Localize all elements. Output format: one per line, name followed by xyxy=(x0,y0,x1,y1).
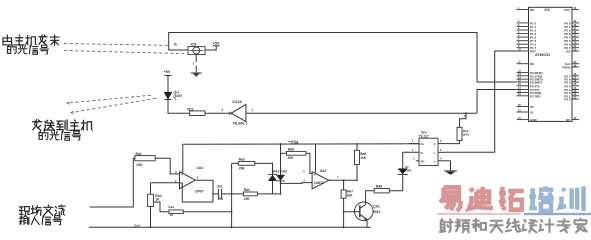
svg-text:20K: 20K xyxy=(244,197,251,201)
svg-text:QA1: QA1 xyxy=(373,205,380,209)
inverter IC10A 74LS06 (points left) with input bubble xyxy=(229,112,231,114)
wire Ra3 to clamp xyxy=(255,162,273,164)
annotation arrow dashed (from LED) 1 xyxy=(70,95,151,103)
resistor Ra4 xyxy=(243,192,257,196)
svg-text:IC8: IC8 xyxy=(191,43,197,47)
svg-text:+: + xyxy=(314,173,316,177)
svg-text:UA1: UA1 xyxy=(197,166,204,170)
LED L1 xyxy=(164,92,172,99)
ground (optocoupler emitter) xyxy=(450,161,452,171)
feedback loop UA1 xyxy=(180,180,214,202)
clamp diode DA2 (down) xyxy=(280,144,282,194)
label text "的光信号" (line 2) xyxy=(8,45,17,54)
wire receiver to +5V xyxy=(205,46,216,50)
wire R11 to inverter xyxy=(205,112,229,114)
resistor Ra9 pull-up xyxy=(356,144,358,150)
svg-text:104: 104 xyxy=(218,197,224,201)
wire Ra6 to UA2 +input xyxy=(306,153,312,173)
wire MCU RST to optocoupler pin 5 xyxy=(446,51,517,152)
wire inverter output to MCU (TXD line) xyxy=(246,112,477,114)
svg-text:+: + xyxy=(181,173,183,177)
op-amp UA1 triangle xyxy=(180,172,196,189)
optocoupler Sn1 TIL117 box xyxy=(419,138,438,165)
MCU left pin stubs and labels xyxy=(517,9,529,11)
wire AC input line 1 xyxy=(90,158,135,207)
ground (receiver) xyxy=(195,66,197,73)
MCU right pin stubs and labels xyxy=(572,9,579,11)
op-amp UA2 triangle xyxy=(312,172,329,189)
svg-text:Ca1: Ca1 xyxy=(217,185,223,189)
svg-text:+5V: +5V xyxy=(164,70,171,74)
resistor R13 xyxy=(457,127,462,140)
label text "发送到主机" (optical signal to host, line 1) xyxy=(32,120,41,131)
wire Ra1 to UA1 +input xyxy=(155,158,179,174)
svg-text:X1: X1 xyxy=(530,111,534,115)
capacitor Ca1 xyxy=(213,193,219,195)
svg-text:13: 13 xyxy=(464,114,468,118)
resistor R11 xyxy=(190,111,205,116)
svg-text:LM311: LM311 xyxy=(314,181,324,185)
wire diode to RA8 xyxy=(389,174,402,190)
collector wire to RA8 xyxy=(366,191,375,205)
wire +5V to LED xyxy=(167,76,169,93)
resistor Ra1 xyxy=(135,156,155,161)
resistor Ra6 xyxy=(281,152,287,154)
svg-text:R11: R11 xyxy=(188,107,194,111)
svg-text:UA2: UA2 xyxy=(320,169,327,173)
svg-text:20K: 20K xyxy=(288,156,295,160)
svg-text:1K: 1K xyxy=(155,198,160,202)
svg-text:AT89C51: AT89C51 xyxy=(535,53,550,57)
optical receiver IC8 box xyxy=(188,47,205,55)
watermark logo 易迪拓 (pink) xyxy=(440,187,461,211)
annotation arrow dashed (from LED) 2 xyxy=(74,98,156,112)
svg-text:10K: 10K xyxy=(347,193,354,197)
watermark underline pink xyxy=(437,213,521,215)
transistor QA1 9013 xyxy=(355,202,374,221)
svg-text:LED: LED xyxy=(176,94,183,98)
svg-text:10K: 10K xyxy=(136,163,143,167)
svg-text:RST: RST xyxy=(530,50,536,54)
svg-text:+5V: +5V xyxy=(213,42,220,46)
watermark underline blue xyxy=(524,213,591,215)
wire clamp to UA2 -input xyxy=(281,182,313,185)
svg-text:GND: GND xyxy=(530,118,538,122)
stub UA2 V+ xyxy=(315,144,317,172)
stub UA1 V+ xyxy=(182,144,184,172)
label text "现场交流" (field AC, line 1) xyxy=(19,207,29,215)
svg-text:Ra1: Ra1 xyxy=(136,152,142,156)
svg-text:NC: NC xyxy=(421,159,425,163)
svg-text:P3 7RD: P3 7RD xyxy=(530,94,541,98)
emitter wire to rail xyxy=(366,219,368,227)
wire R13 to optocoupler pin 6 xyxy=(446,141,460,144)
label text "由主机发来" (optical signal from host, line 1) xyxy=(3,35,12,45)
svg-text:Ra1: Ra1 xyxy=(169,205,175,209)
power rail +VSa xyxy=(183,143,419,146)
clamp diode DA1 (up) xyxy=(272,163,274,194)
wire Ca1 to Ra4 xyxy=(222,193,244,195)
wire Ra4 to clamp node xyxy=(257,193,280,195)
resistor Ra2 horizontal (feedback) xyxy=(153,202,169,212)
wire receiver bottom pin xyxy=(195,55,197,62)
wire LED to R11 xyxy=(168,100,190,114)
svg-text:VCC: VCC xyxy=(564,8,571,12)
wire UA1 -input xyxy=(151,182,180,184)
svg-text:P2 0: P2 0 xyxy=(564,98,571,102)
optocoupler pin stubs right xyxy=(438,143,446,145)
optocoupler pin stubs left xyxy=(410,143,420,145)
label text "输入信号" (input signal, line 2) xyxy=(19,215,29,224)
svg-text:10K: 10K xyxy=(360,156,367,160)
svg-text:Ra6: Ra6 xyxy=(288,147,294,151)
MCU IC6 AT89C51 box xyxy=(529,7,573,121)
svg-text:D-: D- xyxy=(421,151,424,155)
label text "的光信号" (line 2) xyxy=(39,131,48,140)
resistor RA7 base xyxy=(343,180,345,190)
svg-text:4148: 4148 xyxy=(405,168,412,172)
wire Ra2h to node xyxy=(183,211,231,213)
wire MCU P3.5 to TXD line xyxy=(477,90,517,114)
power +5V (receiver) xyxy=(213,45,220,47)
wire top loop from MCU P3.3 to receiver IC8 xyxy=(169,33,517,83)
svg-text:20K: 20K xyxy=(239,167,246,171)
wire MCU pin 13 jog to R13 xyxy=(460,113,467,127)
resistor Ra3 xyxy=(232,162,239,164)
watermark text 射频和天线设计专家 (gray) xyxy=(440,219,453,232)
svg-text:+VSa: +VSa xyxy=(288,139,299,144)
svg-text:OP07: OP07 xyxy=(195,190,204,194)
annotation arrow dashed (to receiver) 2 xyxy=(64,51,184,54)
svg-text:IC10A: IC10A xyxy=(233,100,243,104)
resistor RA8 xyxy=(374,189,389,193)
svg-text:9013: 9013 xyxy=(373,210,381,214)
wire AC input line 2 / common rail xyxy=(89,226,371,228)
svg-text:Ra4: Ra4 xyxy=(244,188,250,192)
svg-text:X2: X2 xyxy=(530,105,534,109)
svg-text:RA8: RA8 xyxy=(376,184,383,188)
diode D11 1N4148 to opto LED xyxy=(402,152,404,169)
svg-text:TIL117: TIL117 xyxy=(419,134,429,138)
wire UA2 output xyxy=(329,179,357,181)
svg-text:IC6: IC6 xyxy=(545,8,550,12)
svg-text:(1K): (1K) xyxy=(463,133,469,137)
resistor RA2 (to ground rail) xyxy=(150,183,152,194)
svg-text:DA1 DA2: DA1 DA2 xyxy=(273,170,287,174)
svg-text:Ca4: Ca4 xyxy=(134,223,140,227)
annotation arrow dashed (to receiver) 1 xyxy=(64,44,169,46)
watermark logo 培训 (blue) xyxy=(529,186,553,210)
svg-text:D+: D+ xyxy=(421,142,425,146)
svg-text:74LS06_1: 74LS06_1 xyxy=(233,121,248,125)
wire RA7 to base and rail xyxy=(343,198,345,227)
svg-text:Ra3: Ra3 xyxy=(239,158,245,162)
svg-text:PSEN: PSEN xyxy=(562,66,570,70)
vertical node wire (left) xyxy=(231,163,233,227)
